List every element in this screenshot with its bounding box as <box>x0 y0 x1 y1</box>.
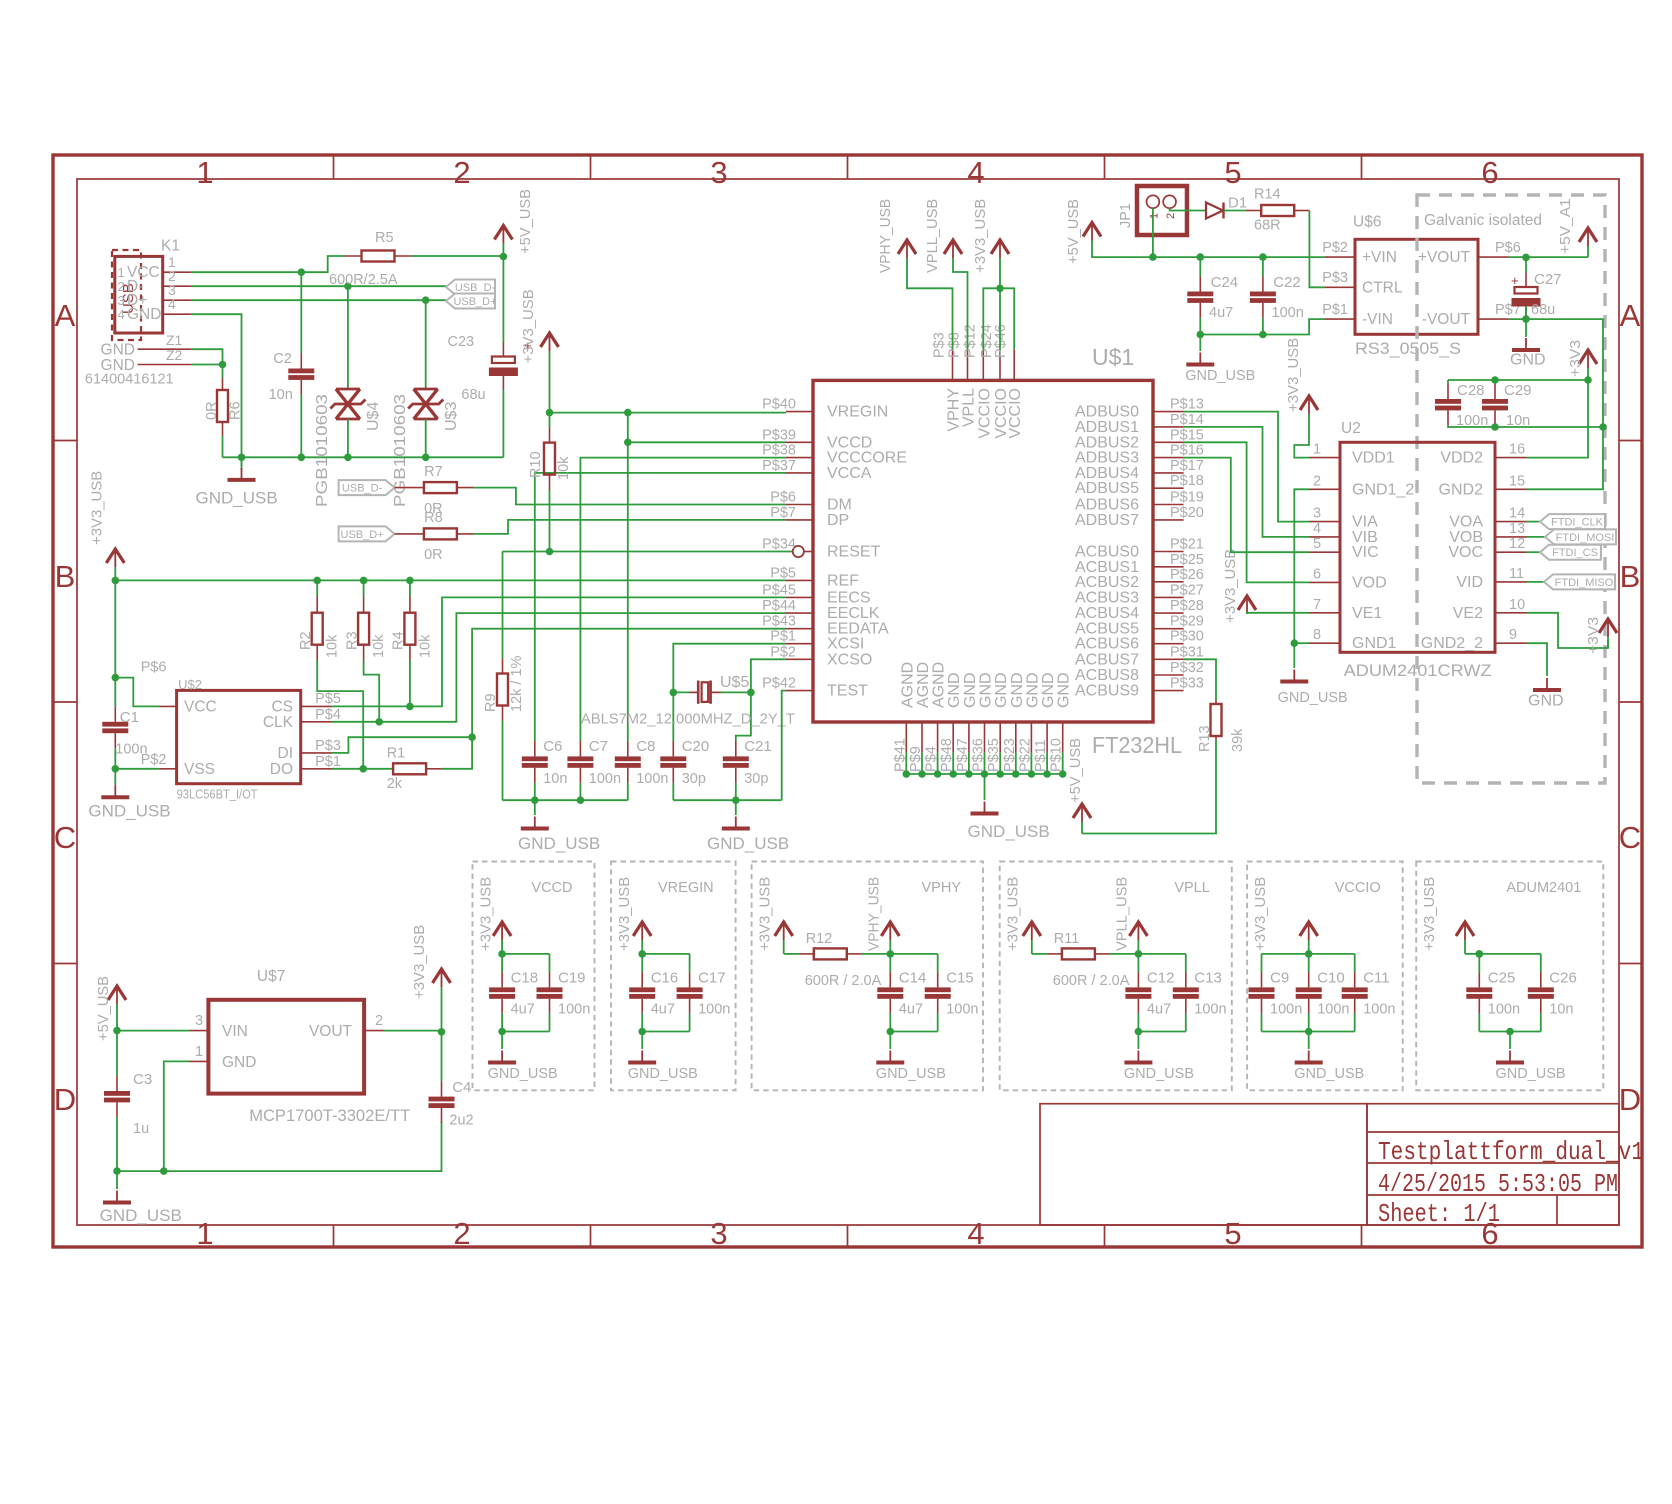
U$2 pin VSS P$2 <box>159 768 177 770</box>
power +3V3_USB arrow at VE1 <box>1238 596 1256 610</box>
svg-text:GND_USB: GND_USB <box>1278 690 1348 706</box>
frame column ticks top <box>333 155 335 179</box>
svg-text:+VIN: +VIN <box>1362 249 1397 266</box>
svg-text:P$46: P$46 <box>993 324 1009 358</box>
junction C27 top <box>1522 254 1530 262</box>
svg-text:12: 12 <box>1509 536 1525 552</box>
svg-text:P$15: P$15 <box>1170 427 1204 443</box>
svg-text:10k: 10k <box>325 634 341 658</box>
svg-text:Sheet: 1/1: Sheet: 1/1 <box>1378 1199 1500 1229</box>
capacitor C2 <box>300 272 302 353</box>
svg-text:B: B <box>1620 559 1641 594</box>
wire VE2 to +3V3 <box>1527 613 1609 648</box>
decoupling group VCCIO dashed box <box>1247 862 1403 1091</box>
wire R3 to CLK line <box>364 660 380 722</box>
svg-text:R11: R11 <box>1054 931 1080 947</box>
capacitor C4 <box>441 1082 443 1097</box>
junction rail C29 <box>1491 376 1499 384</box>
power +3V3 arrow at C28 C29 <box>1579 350 1597 364</box>
IC U2 ADUM2401CRWZ <box>1340 442 1495 652</box>
resistor R6 <box>217 390 228 422</box>
svg-text:+3V3_USB: +3V3_USB <box>1253 877 1269 951</box>
svg-text:5: 5 <box>1224 155 1241 190</box>
U$1 pin P$26 ACBUS2 <box>1153 581 1184 583</box>
svg-text:GND_USB: GND_USB <box>88 802 170 821</box>
ground GND_USB in ADUM2401 <box>1509 1032 1511 1050</box>
svg-text:P$13: P$13 <box>1170 397 1204 413</box>
svg-text:+3V3_USB: +3V3_USB <box>90 471 106 545</box>
svg-text:GND_USB: GND_USB <box>1294 1066 1364 1082</box>
svg-text:Galvanic isolated: Galvanic isolated <box>1424 212 1542 229</box>
junction bottom rail VREGIN <box>638 1028 646 1036</box>
svg-text:GND1: GND1 <box>1352 635 1397 652</box>
wire R14 to CTRL P$3 <box>1309 211 1324 288</box>
wire top rail in VCCD <box>502 953 549 955</box>
svg-text:D1: D1 <box>1228 195 1247 212</box>
svg-text:VOD: VOD <box>1352 574 1387 591</box>
U2 pin 5 VIC <box>1309 551 1340 553</box>
U$1 pin P$47 GND <box>968 722 970 753</box>
svg-text:2: 2 <box>453 155 470 190</box>
svg-text:GND_USB: GND_USB <box>518 834 600 853</box>
svg-text:4u7: 4u7 <box>511 1002 535 1018</box>
U2 pin 3 VIA <box>1309 521 1340 523</box>
power +3V3_USB arrow over U$1 <box>991 240 1009 254</box>
svg-text:VE2: VE2 <box>1453 605 1483 622</box>
svg-text:15: 15 <box>1509 473 1525 489</box>
svg-text:XCSO: XCSO <box>827 651 872 668</box>
svg-text:JP1: JP1 <box>1118 203 1134 228</box>
U$2 pin VCC P$6 <box>159 705 177 707</box>
U$1 pin P$13 ADBUS0 <box>1153 411 1184 413</box>
svg-text:C24: C24 <box>1211 274 1239 291</box>
svg-text:D: D <box>1619 1082 1641 1117</box>
svg-text:1u: 1u <box>133 1121 149 1137</box>
capacitor C10 <box>1308 954 1310 973</box>
svg-text:R14: R14 <box>1254 187 1281 203</box>
wire +3V3_USB down to VREGIN line <box>549 351 551 413</box>
power VPHY_USB arrow <box>898 240 916 254</box>
resistor R3 <box>363 580 365 596</box>
svg-text:+3V3_USB: +3V3_USB <box>1006 877 1022 951</box>
wire +5V_USB rail to U$6 +VIN <box>1092 241 1325 258</box>
svg-text:C18: C18 <box>511 970 539 987</box>
wire +3V3_USB to VCCIO pins <box>999 258 1001 350</box>
svg-text:VPHY: VPHY <box>922 880 962 896</box>
capacitor C3 <box>116 1031 118 1076</box>
capacitor C25 <box>1478 954 1480 973</box>
wire bottom rail in VCCD <box>502 1031 549 1033</box>
U$1 pin P$5 REF <box>786 579 813 581</box>
svg-text:C6: C6 <box>543 738 562 755</box>
wire JP1 pin1 to +5V rail <box>1152 208 1154 257</box>
svg-text:100n: 100n <box>1272 305 1304 321</box>
ground GND_USB under C21 <box>735 800 737 815</box>
wire ground bus GND_USB top-left <box>223 456 504 458</box>
wire bottom rail in VCCIO <box>1262 1031 1355 1033</box>
U$7 pin 2 VOUT <box>364 1030 383 1032</box>
power +3V3_USB arrow at VOUT <box>433 969 451 983</box>
U2 pin 1 VDD1 <box>1309 457 1340 459</box>
svg-text:P$2: P$2 <box>141 752 167 768</box>
junction rail R2 <box>313 577 321 585</box>
svg-text:100n: 100n <box>589 771 621 787</box>
U$2 pin CS P$5 <box>301 705 331 707</box>
svg-text:P$16: P$16 <box>1170 443 1204 459</box>
capacitor C22 <box>1262 257 1264 276</box>
svg-text:R7: R7 <box>424 464 443 480</box>
power +3V3_USB arrow in VPLL <box>1023 922 1041 936</box>
capacitor C15 <box>937 954 939 973</box>
U$1 pin P$35 GND <box>999 722 1001 753</box>
U$1 pin P$45 EECS <box>786 596 813 598</box>
svg-text:1: 1 <box>1313 442 1321 458</box>
svg-text:ACBUS9: ACBUS9 <box>1075 683 1139 700</box>
power VPHY_USB arrow in VPHY <box>881 922 899 936</box>
svg-text:P$3: P$3 <box>932 332 948 358</box>
U$1 pin P$18 ADBUS5 <box>1153 487 1184 489</box>
svg-text:2: 2 <box>375 1013 383 1029</box>
svg-text:R13: R13 <box>1197 725 1213 752</box>
svg-text:P$21: P$21 <box>1170 537 1204 553</box>
connector K1 dashed outline <box>112 250 141 340</box>
svg-text:P$37: P$37 <box>762 458 796 474</box>
svg-text:PGB1010603: PGB1010603 <box>392 394 409 507</box>
junction CS R4 <box>406 703 414 711</box>
junction VCC C2 <box>298 268 306 276</box>
svg-text:GND_USB: GND_USB <box>968 822 1050 841</box>
ground GND_USB in VPHY <box>889 1032 891 1050</box>
svg-text:ADBUS7: ADBUS7 <box>1075 512 1139 529</box>
junction crystal left <box>670 689 678 697</box>
U2 pin 14 VOA <box>1495 521 1527 523</box>
junction +3V3 rail at C1 column <box>112 577 120 585</box>
capacitor C27 (polarized 68u) <box>1525 257 1527 273</box>
U$1 pin P$11 GND <box>1046 722 1048 753</box>
wire ground rail C20-C21 <box>672 783 674 800</box>
svg-text:P$6: P$6 <box>141 659 167 675</box>
wire XCSI P$1 to crystal left and C20 <box>673 644 786 693</box>
svg-text:P$33: P$33 <box>1170 676 1204 692</box>
U2 pin 12 VOC <box>1495 551 1527 553</box>
svg-text:P$14: P$14 <box>1170 412 1204 428</box>
ground GND_USB under U$1 <box>984 774 986 800</box>
IC U$6 RS3_0505_S <box>1355 239 1478 334</box>
svg-text:U$6: U$6 <box>1353 214 1381 231</box>
svg-text:C4: C4 <box>452 1079 471 1096</box>
svg-text:P$2: P$2 <box>1322 240 1348 256</box>
wire C2 to ground bus <box>300 395 302 457</box>
decoupling group VPLL dashed box <box>1000 862 1232 1091</box>
U$1 pin P$28 ACBUS4 <box>1153 612 1184 614</box>
svg-text:A: A <box>1620 298 1641 333</box>
wire top rail in VCCIO <box>1262 953 1355 955</box>
U$1 pin P$10 GND <box>1062 722 1064 753</box>
power +3V3 arrow at VE2 <box>1599 619 1617 633</box>
svg-text:P$7: P$7 <box>770 505 796 521</box>
svg-text:K1: K1 <box>161 238 180 255</box>
wire ADBUS3 to VIC <box>1184 458 1309 553</box>
svg-text:P$38: P$38 <box>762 443 796 459</box>
svg-text:9: 9 <box>1509 627 1517 643</box>
svg-text:CLK: CLK <box>263 714 294 731</box>
svg-text:GND_USB: GND_USB <box>1185 368 1255 384</box>
capacitor C13 <box>1185 954 1187 973</box>
U2 pin 4 VIB <box>1309 536 1340 538</box>
wire GND1_2 GND1 riser <box>1294 489 1309 643</box>
resistor R2 <box>316 580 318 596</box>
svg-text:10n: 10n <box>543 771 567 787</box>
junction rail in VREGIN <box>638 950 646 958</box>
svg-text:100n: 100n <box>558 1002 590 1018</box>
power VPLL_USB arrow in VPLL <box>1129 922 1147 936</box>
wire bottom rail in VPHY <box>890 1031 937 1033</box>
svg-text:U$7: U$7 <box>257 968 285 985</box>
wire R10 to RESET line <box>549 490 551 552</box>
svg-text:7: 7 <box>1313 597 1321 613</box>
capacitor C6 <box>534 741 536 756</box>
svg-text:ADBUS5: ADBUS5 <box>1075 480 1139 497</box>
wire ADBUS1 to VIB <box>1184 427 1309 537</box>
svg-text:TEST: TEST <box>827 683 868 700</box>
wire C3 to ground rail <box>116 1117 118 1171</box>
U$1 pin P$44 EECLK <box>786 612 813 614</box>
power +5V_USB arrow at U$7 <box>108 986 126 1000</box>
wire U$4 to ground bus <box>347 419 349 457</box>
ground GND_USB under C24 <box>1199 335 1201 352</box>
svg-text:100n: 100n <box>698 1002 730 1018</box>
svg-text:100n: 100n <box>1194 1002 1226 1018</box>
svg-text:C10: C10 <box>1317 970 1345 987</box>
connector K1 pin 2 D- <box>163 285 192 287</box>
svg-text:VID: VID <box>1456 574 1483 591</box>
svg-text:C23: C23 <box>448 334 475 350</box>
svg-text:Z2: Z2 <box>166 347 183 363</box>
wire +3V3_USB to VDD1 <box>1294 414 1309 458</box>
svg-text:GND: GND <box>222 1054 256 1071</box>
svg-text:2: 2 <box>453 1216 470 1251</box>
ground GND_USB under C6 <box>534 800 536 815</box>
svg-text:C21: C21 <box>744 738 772 755</box>
wire XCSO P$2 to crystal right and C21 <box>736 659 786 741</box>
capacitor C11 <box>1354 954 1356 973</box>
capacitor C20 <box>672 741 674 756</box>
svg-text:AGND: AGND <box>931 662 948 708</box>
junction bottom rail C22 <box>1259 331 1267 339</box>
svg-text:+3V3_USB: +3V3_USB <box>412 925 428 999</box>
svg-text:C25: C25 <box>1488 970 1516 987</box>
svg-text:P$12: P$12 <box>962 324 978 358</box>
ground GND_USB in VCCIO <box>1308 1032 1310 1050</box>
junction rail C22 <box>1259 253 1267 261</box>
svg-text:+3V3: +3V3 <box>1586 617 1602 654</box>
connector K1 body <box>115 256 163 333</box>
diode D1 <box>1206 203 1223 219</box>
svg-text:0R: 0R <box>424 547 443 563</box>
svg-text:D: D <box>54 1082 76 1117</box>
svg-text:ACBUS7: ACBUS7 <box>1075 651 1139 668</box>
svg-text:P$45: P$45 <box>762 582 796 598</box>
capacitor C16 <box>641 954 643 973</box>
wire DI net to EEDATA P$43 <box>332 629 787 753</box>
svg-text:FTDI_CS: FTDI_CS <box>1552 547 1598 559</box>
resistor R1 <box>393 763 426 774</box>
svg-text:GND2_2: GND2_2 <box>1421 635 1483 652</box>
wire JP1 pin2 to D1 <box>1170 208 1206 210</box>
capacitor C23 (polarized 68u) <box>502 343 504 357</box>
power +3V3_USB arrow in VCCD <box>493 922 511 936</box>
wire VREGIN line to P$40 <box>550 412 787 414</box>
svg-text:P$30: P$30 <box>1170 629 1204 645</box>
U$1 pin P$48 GND <box>952 722 954 753</box>
svg-text:GND: GND <box>993 672 1010 708</box>
svg-text:5: 5 <box>1224 1216 1241 1251</box>
resistor R13 <box>1215 700 1217 704</box>
svg-text:ACBUS8: ACBUS8 <box>1075 667 1139 684</box>
wire TEST P$42 riser <box>782 691 786 801</box>
svg-text:1: 1 <box>1149 213 1161 219</box>
svg-text:+3V3_USB: +3V3_USB <box>479 877 495 951</box>
svg-text:EECLK: EECLK <box>827 605 880 622</box>
svg-text:C: C <box>54 820 76 855</box>
U$1 pin P$20 ADBUS7 <box>1153 519 1184 521</box>
U2 pin 16 VDD2 <box>1495 457 1527 459</box>
junction rail R4 <box>406 577 414 585</box>
U2 pin 6 VOD <box>1309 581 1340 583</box>
svg-text:P$28: P$28 <box>1170 598 1204 614</box>
net flag FTDI_MISO at VID <box>1527 581 1545 583</box>
svg-text:USB_D-: USB_D- <box>455 282 496 294</box>
svg-text:600R / 2.0A: 600R / 2.0A <box>1053 973 1130 989</box>
ground GND_USB in VPLL <box>1137 1032 1139 1050</box>
wire K1 pin2 USB_D- to flag <box>191 285 446 287</box>
svg-text:VOC: VOC <box>1448 544 1483 561</box>
svg-text:100n: 100n <box>1270 1002 1302 1018</box>
svg-text:P$3: P$3 <box>1322 270 1348 286</box>
power +3V3_USB arrow at U2 VDD1 <box>1300 396 1318 410</box>
junction RESET R10 <box>546 548 554 556</box>
svg-text:GND: GND <box>978 672 995 708</box>
svg-text:10k: 10k <box>371 634 387 658</box>
svg-text:GND_USB: GND_USB <box>707 834 789 853</box>
svg-text:GND: GND <box>1528 693 1564 710</box>
U$1 pin P$16 ADBUS3 <box>1153 457 1184 459</box>
svg-text:R2: R2 <box>298 631 314 650</box>
svg-text:REF: REF <box>827 572 859 589</box>
net flag FTDI_CLK at VOA <box>1527 521 1541 523</box>
U$1 pin P$6 DM <box>786 504 813 506</box>
wire VCCD riser and line to P$39 <box>628 413 786 443</box>
svg-text:C7: C7 <box>589 738 608 755</box>
svg-text:2k: 2k <box>387 776 403 792</box>
svg-text:VREGIN: VREGIN <box>827 404 888 421</box>
wire RESET line to P$34 and R9 <box>503 551 793 553</box>
junction R5 +5V rail <box>500 253 508 261</box>
wire R7 to DM <box>473 488 786 505</box>
wire bottom rail in VREGIN <box>642 1031 689 1033</box>
svg-text:P$6: P$6 <box>770 490 796 506</box>
svg-text:ACBUS6: ACBUS6 <box>1075 636 1139 653</box>
svg-text:VREGIN: VREGIN <box>658 880 714 896</box>
junction bottom C29 <box>1491 423 1499 431</box>
svg-text:C26: C26 <box>1549 970 1577 987</box>
wire R5 to +5V_USB <box>412 255 503 257</box>
svg-text:12k / 1%: 12k / 1% <box>509 655 525 712</box>
jumper JP1 <box>1137 186 1187 235</box>
wire bottom rail in ADUM2401 <box>1479 1031 1541 1033</box>
svg-text:VCCIO: VCCIO <box>976 388 993 439</box>
svg-text:C15: C15 <box>946 970 974 987</box>
wire top rail in VREGIN <box>642 953 689 955</box>
svg-text:PGB1010603: PGB1010603 <box>314 394 331 507</box>
svg-text:30p: 30p <box>682 771 706 787</box>
wire VSS to ground <box>115 768 158 770</box>
net flag USB_D- <box>446 280 495 295</box>
U2 pin 13 VOB <box>1495 536 1527 538</box>
svg-text:4u7: 4u7 <box>1147 1002 1171 1018</box>
svg-text:FTDI_CLK: FTDI_CLK <box>1551 517 1604 529</box>
junction bus U$3 <box>422 454 430 462</box>
svg-text:FT232HL: FT232HL <box>1092 732 1182 758</box>
svg-text:5: 5 <box>1313 536 1321 552</box>
IC U$1 FT232HL body <box>813 380 1153 722</box>
svg-text:P$39: P$39 <box>762 427 796 443</box>
svg-text:GND: GND <box>1009 672 1026 708</box>
svg-text:VPLL_USB: VPLL_USB <box>1114 877 1130 951</box>
svg-text:2: 2 <box>118 279 125 294</box>
U$1 pin P$41 AGND <box>905 722 907 753</box>
connector K1 pin 4 GND <box>163 313 192 315</box>
U$2 pin DI P$3 <box>301 752 331 754</box>
U$1 pin P$36 GND <box>984 722 986 753</box>
svg-text:R10: R10 <box>528 451 544 478</box>
svg-text:GND: GND <box>962 672 979 708</box>
TVS diode U$3 <box>425 300 427 389</box>
svg-text:+3V3_USB: +3V3_USB <box>521 289 537 363</box>
wire C24 C22 bottom rail to -VIN <box>1199 318 1201 335</box>
svg-text:+VOUT: +VOUT <box>1418 249 1471 266</box>
svg-text:0R: 0R <box>204 401 220 420</box>
svg-text:1: 1 <box>195 1044 203 1060</box>
junction bus C2 <box>298 454 306 462</box>
wire K1 pin3 USB_D+ to flag <box>191 299 446 301</box>
wire C23 to ground bus <box>502 390 504 458</box>
svg-text:16: 16 <box>1509 442 1525 458</box>
svg-text:R9: R9 <box>483 693 499 712</box>
decoupling group VREGIN dashed box <box>611 862 736 1091</box>
svg-text:C13: C13 <box>1194 970 1222 987</box>
U$7 pin 1 GND <box>189 1060 208 1062</box>
junction rail C24 <box>1197 253 1205 261</box>
svg-text:GND: GND <box>101 342 135 359</box>
junction bottom rail VCCD <box>498 1028 506 1036</box>
junction bottom rail ADUM2401 <box>1506 1028 1514 1036</box>
svg-text:R5: R5 <box>375 230 394 246</box>
svg-text:P$19: P$19 <box>1170 490 1204 506</box>
svg-text:2: 2 <box>1165 213 1177 219</box>
wire CLK net to EECLK P$44 <box>332 613 787 722</box>
svg-text:+3V3_USB: +3V3_USB <box>1223 549 1239 623</box>
svg-text:USB_D-: USB_D- <box>342 483 383 495</box>
wire K1 pin4 GND down to ground bus <box>191 314 241 466</box>
svg-text:+3V3_USB: +3V3_USB <box>1286 338 1302 412</box>
svg-text:4u7: 4u7 <box>651 1002 675 1018</box>
svg-text:4: 4 <box>1313 521 1321 537</box>
svg-text:R1: R1 <box>387 745 406 761</box>
svg-text:U$3: U$3 <box>443 402 460 431</box>
resistor R14 <box>1246 210 1262 212</box>
U$2 pin CLK P$4 <box>301 721 331 723</box>
